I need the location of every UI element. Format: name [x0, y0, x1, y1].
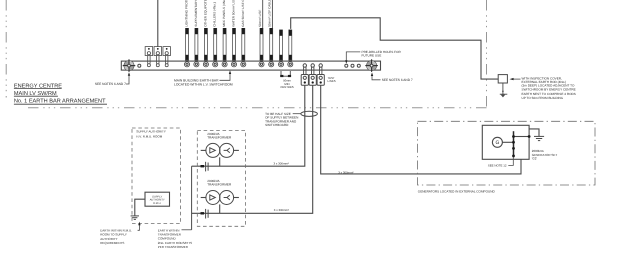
svg-text:MCC PANELS (4No.): MCC PANELS (4No.)	[222, 0, 226, 27]
svg-text:50mm² L/SF CABLE: 50mm² L/SF CABLE	[268, 0, 272, 27]
svg-text:3 x 300mm²: 3 x 300mm²	[274, 208, 289, 212]
spare hole on bar	[138, 64, 141, 67]
note EARTH WITHIN TRANSFORMER COMPOUND	[158, 228, 192, 248]
pre-drilled holes	[345, 64, 361, 67]
generator compound dashed box	[418, 121, 596, 185]
note PRE-DRILLED HOLES FOR FUTURE USE	[345, 50, 401, 64]
svg-text:LOCATED WITHIN L.V. SWITCHROOM: LOCATED WITHIN L.V. SWITCHROOM	[174, 82, 233, 86]
generator G1 circle	[492, 137, 502, 147]
junction dots on bus	[512, 135, 530, 157]
svg-text:TRANSFORMER: TRANSFORMER	[207, 183, 232, 187]
svg-text:SWITCHROOM BY ENERGY CENTRE: SWITCHROOM BY ENERGY CENTRE	[522, 87, 576, 91]
svg-text:FUTURE USE: FUTURE USE	[362, 54, 382, 58]
wire test link 1 to transformer 1 earth	[192, 85, 305, 166]
svg-text:'G2': 'G2'	[532, 157, 538, 161]
note TO BE HALF SIZE OF SUPPLY + ellipse	[265, 111, 317, 127]
cable lug L7 GAS 50mm² L/SF CABLE	[241, 0, 246, 67]
wire bar to external earth rod	[291, 18, 499, 79]
title No. 1 EARTH BAR ARRANGEMENT	[14, 99, 107, 105]
cable lug L1 LIGHTNING PROTECTION	[184, 0, 189, 67]
cable lug L6 WATER 50mm² L/SF	[231, 0, 236, 67]
transformer T2 2000kVA	[201, 179, 239, 213]
svg-text:TRANSFORMER: TRANSFORMER	[207, 136, 232, 140]
generator set box	[482, 125, 529, 159]
svg-text:SWITCHBOARD: SWITCHBOARD	[265, 123, 289, 127]
wire test link 3 to generator	[321, 85, 521, 174]
earth link T2	[201, 209, 209, 219]
label 2000kVA GENERATOR SET G2	[532, 149, 558, 161]
test link 2	[309, 64, 316, 85]
wire bus to enclosure	[514, 136, 530, 138]
svg-text:SEE NOTE 12: SEE NOTE 12	[488, 163, 507, 167]
building boundary vertical dash-dot line	[486, 0, 488, 108]
test link 1	[301, 64, 308, 85]
note WITH INSPECTION COVER	[510, 76, 576, 100]
label TEST LINKS	[328, 76, 336, 83]
note SEE NOTES 6 AND 7 left	[95, 72, 130, 86]
RMU box	[145, 192, 170, 206]
incoming earth wire from top	[157, 0, 159, 47]
svg-text:LINKS: LINKS	[328, 79, 336, 83]
svg-text:PER TRANSFORMER: PER TRANSFORMER	[158, 245, 189, 249]
transformer earth conductor to label	[191, 166, 193, 230]
link terminal 1	[145, 47, 153, 67]
dimension 50mm MIN CENTRES	[280, 71, 294, 89]
wire RMU to earth	[135, 199, 145, 215]
svg-text:H.V. R.M.U. ROOM: H.V. R.M.U. ROOM	[136, 134, 162, 138]
label SUPPLY AUTHORITY H.V. R.M.U. ROOM	[136, 129, 166, 138]
svg-text:GAS 50mm² L/SF CABLE: GAS 50mm² L/SF CABLE	[241, 0, 245, 27]
cable lug L4 CHILLERS (4No.)	[213, 2, 218, 67]
left border dash-dot line	[5, 0, 7, 98]
title ENERGY CENTRE	[14, 83, 62, 89]
cable lug L8 50mm² L/SF	[258, 10, 264, 67]
note SEE NOTES 6 AND 7 right	[371, 72, 413, 81]
wire test link 2 to transformer 2 earth	[192, 85, 313, 213]
svg-text:3 x 300mm²: 3 x 300mm²	[338, 170, 353, 174]
note SEE NOTE 12	[488, 158, 514, 168]
svg-text:LIGHTNING PROTECTION: LIGHTNING PROTECTION	[185, 0, 189, 27]
svg-text:SUPPLEMENTARY BONDING: SUPPLEMENTARY BONDING	[194, 0, 198, 27]
svg-text:GENERATORS LOCATED IN EXTERNAL: GENERATORS LOCATED IN EXTERNAL COMPOUND	[418, 190, 496, 194]
building boundary horizontal dash-dot line	[28, 107, 487, 109]
cable lug L9 50mm² L/SF CABLE	[268, 0, 274, 67]
external earth rod box	[498, 75, 507, 94]
cable lug L5 MCC PANELS (4No.)	[222, 0, 227, 67]
transformer T1 2000kVA	[201, 132, 239, 166]
svg-text:REQUIREMENTS: REQUIREMENTS	[100, 241, 124, 245]
svg-text:R.M.U.: R.M.U.	[153, 202, 161, 205]
earth link T1	[201, 162, 209, 172]
right end disconnecting lug	[365, 59, 378, 72]
svg-text:WATER 50mm² L/SF: WATER 50mm² L/SF	[232, 0, 236, 27]
ground symbol RMU	[131, 216, 139, 220]
cable lug L10	[278, 30, 283, 67]
wire G to earth bus	[502, 141, 513, 143]
main earth bar	[121, 61, 380, 70]
label MAIN BUILDING EARTH BAR	[174, 70, 233, 86]
svg-text:CHILLERS (4No.): CHILLERS (4No.)	[213, 2, 217, 27]
title MAIN LV SW/RM	[14, 90, 58, 97]
cable lug L3 OTHER EQUIPOTENTIAL	[203, 0, 208, 67]
svg-text:50mm² L/SF: 50mm² L/SF	[258, 10, 262, 27]
earth electrode symbol	[500, 90, 508, 97]
ground symbol generator	[534, 136, 544, 140]
svg-text:G: G	[495, 140, 499, 146]
note EARTH WITHIN RMU ROOM	[100, 222, 140, 245]
transformer compound dashed box	[197, 131, 245, 227]
generator earth bus	[513, 131, 515, 157]
link terminal 2	[154, 47, 162, 67]
generator enclosure earth wire	[529, 129, 539, 137]
link terminal 3	[163, 47, 171, 67]
cable lug L2 SUPPLEMENTARY BONDING	[194, 0, 199, 67]
svg-text:SEE NOTES 6 AND 7: SEE NOTES 6 AND 7	[382, 78, 413, 82]
wire above lug L9	[271, 0, 273, 28]
svg-text:SEE NOTES 6 AND 7: SEE NOTES 6 AND 7	[95, 82, 126, 86]
svg-text:UP TO 50m FROM BUILDING: UP TO 50m FROM BUILDING	[522, 96, 564, 100]
wire above lug L8	[262, 0, 264, 28]
svg-text:OTHER EQUIPOTENTIAL: OTHER EQUIPOTENTIAL	[203, 0, 207, 27]
cable lug L11	[288, 30, 293, 67]
svg-text:CENTRES: CENTRES	[280, 85, 293, 89]
svg-text:No. 1 EARTH BAR ARRANGEMENT: No. 1 EARTH BAR ARRANGEMENT	[14, 99, 106, 105]
RMU room dashed box	[132, 128, 181, 224]
svg-text:3 x 300mm²: 3 x 300mm²	[274, 161, 289, 165]
svg-text:SUPPLY AUTHORITY: SUPPLY AUTHORITY	[136, 129, 166, 133]
test link 3	[317, 64, 324, 85]
left end disconnecting lug	[123, 59, 136, 72]
